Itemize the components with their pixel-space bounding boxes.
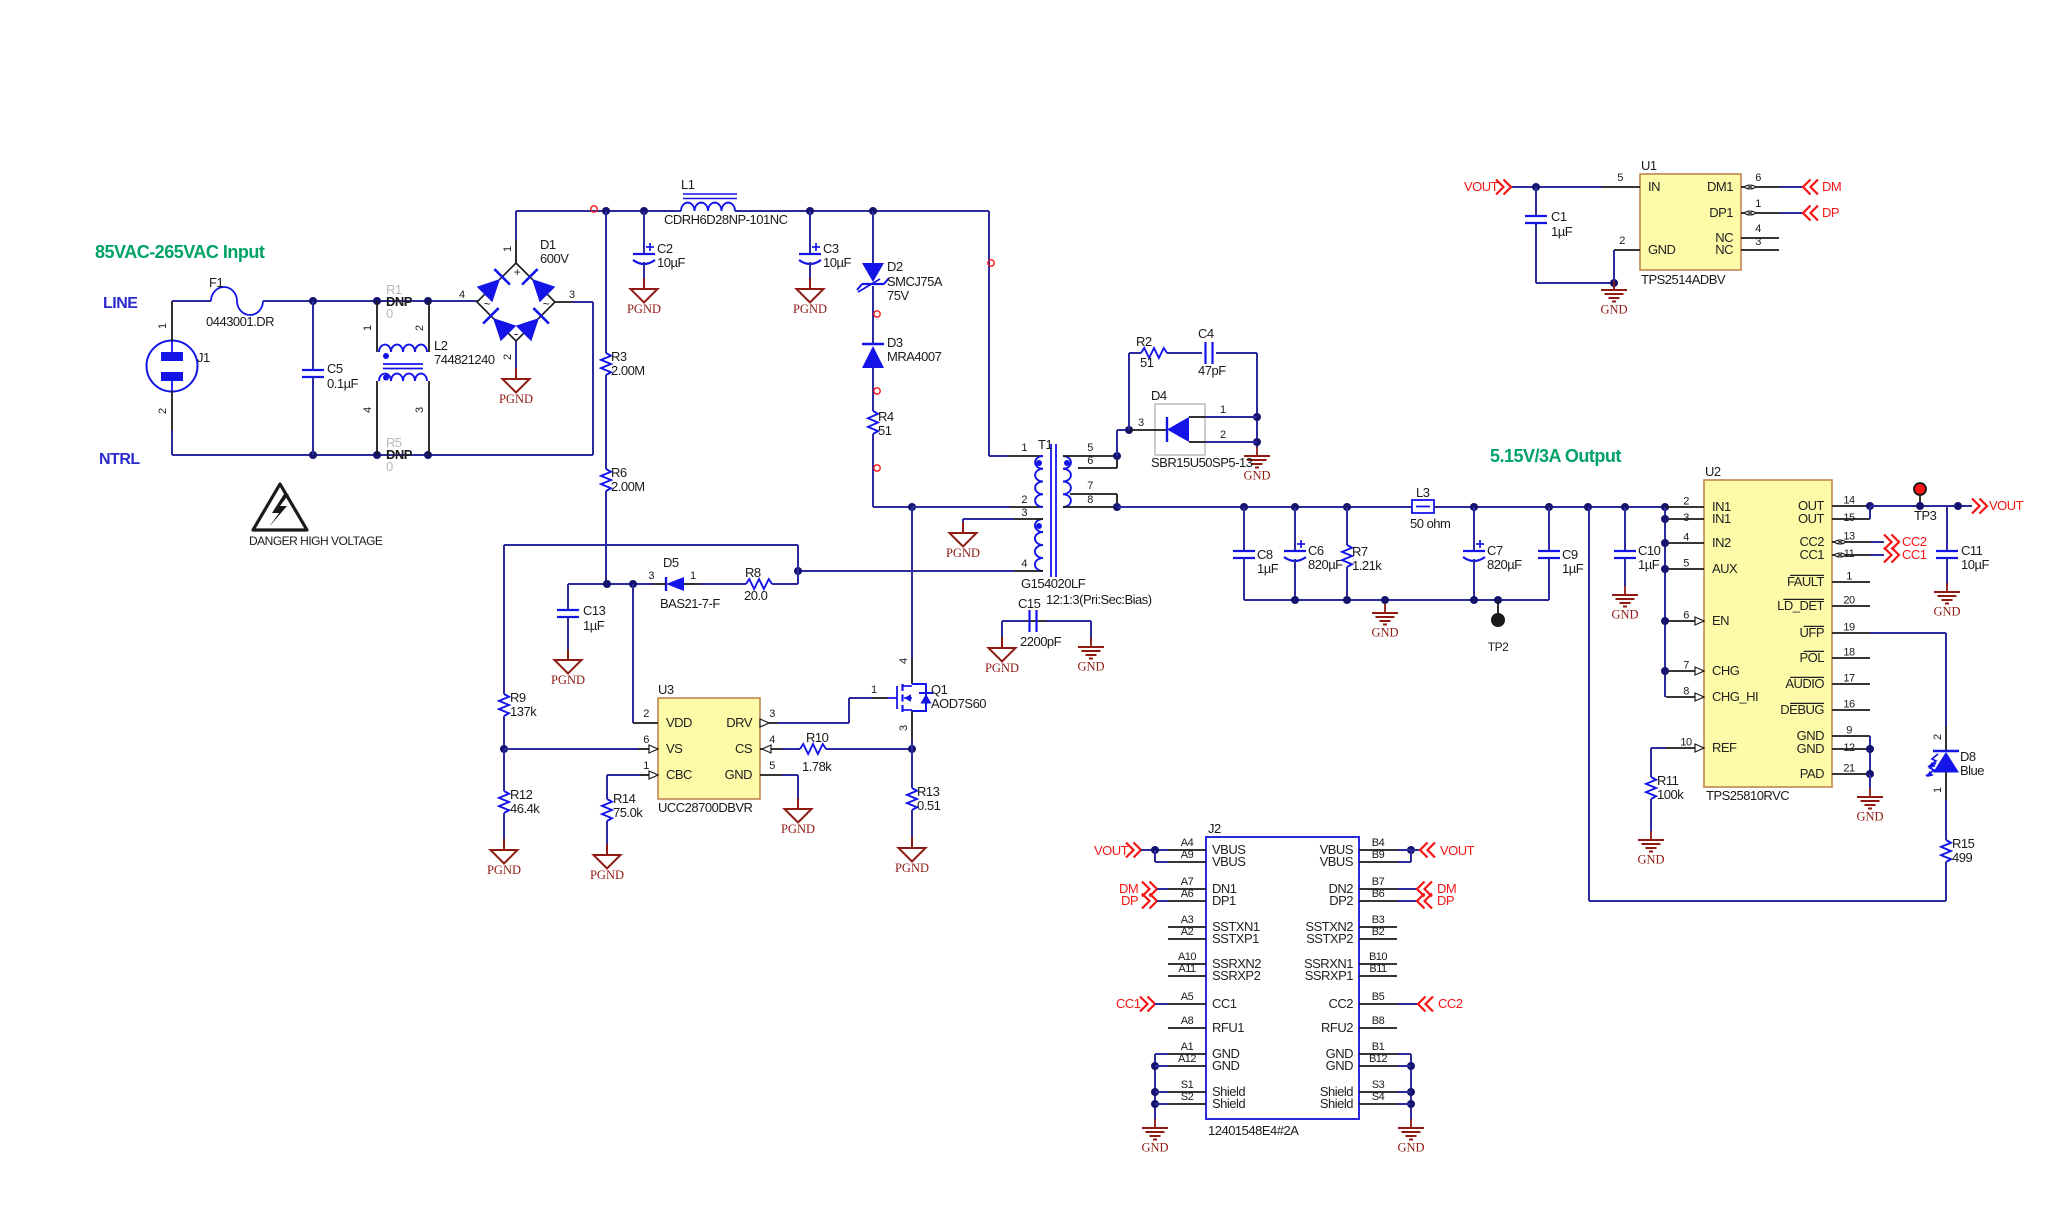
svg-text:GND: GND <box>1243 469 1270 483</box>
svg-text:SSRXP1: SSRXP1 <box>1305 968 1354 983</box>
svg-text:L2: L2 <box>434 338 448 353</box>
svg-text:J2: J2 <box>1208 821 1221 836</box>
svg-text:DP: DP <box>1437 893 1454 908</box>
svg-text:BAS21-7-F: BAS21-7-F <box>660 596 720 611</box>
svg-text:2.00M: 2.00M <box>611 363 645 378</box>
svg-text:UCC28700DBVR: UCC28700DBVR <box>658 800 753 815</box>
svg-text:1: 1 <box>690 570 696 582</box>
svg-text:744821240: 744821240 <box>434 352 495 367</box>
svg-text:Blue: Blue <box>1960 763 1984 778</box>
svg-text:C11: C11 <box>1961 543 1983 558</box>
svg-text:PGND: PGND <box>985 661 1019 675</box>
svg-text:0.51: 0.51 <box>917 798 941 813</box>
svg-text:FAULT: FAULT <box>1787 574 1825 589</box>
svg-text:B5: B5 <box>1372 991 1385 1003</box>
svg-text:5: 5 <box>1683 558 1689 570</box>
svg-text:A7: A7 <box>1181 876 1194 888</box>
svg-text:1: 1 <box>362 325 374 331</box>
svg-text:PGND: PGND <box>895 861 929 875</box>
svg-text:C4: C4 <box>1198 326 1214 341</box>
svg-text:GND: GND <box>1326 1058 1354 1073</box>
svg-text:C3: C3 <box>823 241 839 256</box>
svg-text:1.78k: 1.78k <box>802 759 832 774</box>
svg-text:10µF: 10µF <box>1961 557 1989 572</box>
svg-text:16: 16 <box>1843 699 1855 711</box>
svg-text:5: 5 <box>1087 442 1093 454</box>
svg-text:GND: GND <box>1141 1141 1168 1155</box>
svg-text:1: 1 <box>643 760 649 772</box>
svg-text:B9: B9 <box>1372 849 1385 861</box>
svg-text:B3: B3 <box>1372 914 1385 926</box>
svg-text:18: 18 <box>1843 647 1855 659</box>
svg-text:1µF: 1µF <box>583 618 605 633</box>
svg-text:7: 7 <box>1087 480 1093 492</box>
svg-text:12: 12 <box>1843 742 1855 754</box>
svg-text:0443001.DR: 0443001.DR <box>206 314 274 329</box>
svg-text:VBUS: VBUS <box>1212 854 1246 869</box>
svg-text:17: 17 <box>1843 673 1855 685</box>
svg-text:19: 19 <box>1843 622 1855 634</box>
svg-text:PAD: PAD <box>1800 766 1824 781</box>
svg-text:VOUT: VOUT <box>1989 498 2024 513</box>
svg-text:PGND: PGND <box>499 392 533 406</box>
svg-text:A10: A10 <box>1178 951 1196 963</box>
svg-text:R11: R11 <box>1657 773 1679 788</box>
svg-text:1: 1 <box>1755 198 1761 210</box>
svg-text:51: 51 <box>878 423 892 438</box>
svg-text:20: 20 <box>1843 595 1855 607</box>
svg-text:15: 15 <box>1843 512 1855 524</box>
svg-text:DRV: DRV <box>726 715 753 730</box>
svg-text:POL: POL <box>1799 650 1824 665</box>
svg-text:IN: IN <box>1648 179 1660 194</box>
svg-text:PGND: PGND <box>781 822 815 836</box>
svg-text:AUX: AUX <box>1712 561 1738 576</box>
svg-text:4: 4 <box>1021 558 1027 570</box>
svg-text:2: 2 <box>1619 235 1625 247</box>
svg-text:IN2: IN2 <box>1712 535 1731 550</box>
svg-text:51: 51 <box>1140 355 1154 370</box>
svg-text:14: 14 <box>1843 495 1855 507</box>
svg-text:3: 3 <box>769 708 775 720</box>
svg-text:R9: R9 <box>510 690 526 705</box>
svg-text:C15: C15 <box>1018 596 1041 611</box>
svg-text:B2: B2 <box>1372 926 1385 938</box>
svg-text:S4: S4 <box>1372 1091 1385 1103</box>
svg-text:PGND: PGND <box>551 673 585 687</box>
svg-text:PGND: PGND <box>487 863 521 877</box>
svg-text:IN1: IN1 <box>1712 511 1731 526</box>
svg-text:VBUS: VBUS <box>1320 854 1354 869</box>
svg-text:AOD7S60: AOD7S60 <box>931 696 986 711</box>
svg-text:1: 1 <box>1932 787 1944 793</box>
svg-text:C5: C5 <box>327 361 343 376</box>
svg-text:2: 2 <box>414 325 426 331</box>
svg-text:4: 4 <box>769 734 775 746</box>
svg-text:B1: B1 <box>1372 1041 1385 1053</box>
svg-text:C10: C10 <box>1638 543 1661 558</box>
svg-text:C8: C8 <box>1257 547 1273 562</box>
svg-text:8: 8 <box>1087 494 1093 506</box>
svg-text:B12: B12 <box>1369 1053 1387 1065</box>
svg-text:2200pF: 2200pF <box>1020 634 1062 649</box>
svg-text:5: 5 <box>1617 172 1623 184</box>
svg-text:R14: R14 <box>613 791 636 806</box>
svg-text:VDD: VDD <box>666 715 692 730</box>
svg-text:B10: B10 <box>1369 951 1387 963</box>
svg-text:U3: U3 <box>658 682 674 697</box>
svg-text:100k: 100k <box>1657 787 1684 802</box>
svg-text:CC1: CC1 <box>1799 547 1824 562</box>
svg-text:CC1: CC1 <box>1902 547 1927 562</box>
svg-text:1µF: 1µF <box>1562 561 1584 576</box>
svg-text:1: 1 <box>157 323 169 329</box>
svg-text:GND: GND <box>1212 1058 1240 1073</box>
svg-text:820µF: 820µF <box>1308 557 1343 572</box>
svg-text:B11: B11 <box>1369 963 1387 975</box>
svg-text:3: 3 <box>414 407 426 413</box>
svg-text:C1: C1 <box>1551 209 1567 224</box>
svg-text:CBC: CBC <box>666 767 692 782</box>
svg-text:SSRXP2: SSRXP2 <box>1212 968 1261 983</box>
svg-text:S3: S3 <box>1372 1079 1385 1091</box>
svg-text:R10: R10 <box>806 730 829 745</box>
svg-text:12401548E4#2A: 12401548E4#2A <box>1208 1123 1299 1138</box>
svg-text:6: 6 <box>1683 610 1689 622</box>
svg-text:DP: DP <box>1822 205 1839 220</box>
svg-text:CC2: CC2 <box>1438 996 1463 1011</box>
svg-text:C13: C13 <box>583 603 606 618</box>
svg-text:D5: D5 <box>663 555 679 570</box>
svg-text:4: 4 <box>1683 532 1689 544</box>
svg-text:REF: REF <box>1712 740 1737 755</box>
svg-text:DP2: DP2 <box>1329 893 1353 908</box>
svg-text:10µF: 10µF <box>823 255 851 270</box>
svg-text:J1: J1 <box>197 350 210 365</box>
svg-text:13: 13 <box>1843 531 1855 543</box>
svg-text:VS: VS <box>666 741 683 756</box>
svg-text:B6: B6 <box>1372 888 1385 900</box>
svg-text:A9: A9 <box>1181 849 1194 861</box>
svg-text:DANGER HIGH VOLTAGE: DANGER HIGH VOLTAGE <box>249 534 383 548</box>
svg-text:GND: GND <box>1648 242 1676 257</box>
svg-text:U2: U2 <box>1705 464 1721 479</box>
svg-text:2: 2 <box>157 408 169 414</box>
svg-text:0: 0 <box>386 459 393 474</box>
svg-text:R13: R13 <box>917 784 940 799</box>
svg-text:3: 3 <box>898 725 910 731</box>
svg-text:0: 0 <box>386 306 393 321</box>
svg-text:RFU1: RFU1 <box>1212 1020 1244 1035</box>
svg-text:Shield: Shield <box>1320 1096 1353 1111</box>
svg-text:VOUT: VOUT <box>1094 843 1129 858</box>
svg-text:1: 1 <box>1846 571 1852 583</box>
svg-text:SMCJ75A: SMCJ75A <box>887 274 943 289</box>
svg-text:DM1: DM1 <box>1707 179 1733 194</box>
svg-text:499: 499 <box>1952 850 1972 865</box>
svg-text:10: 10 <box>1680 737 1692 749</box>
svg-text:+: + <box>514 265 521 279</box>
svg-text:AUDIO: AUDIO <box>1785 676 1824 691</box>
svg-text:TPS2514ADBV: TPS2514ADBV <box>1641 272 1726 287</box>
svg-text:1µF: 1µF <box>1638 557 1660 572</box>
svg-text:2: 2 <box>1683 496 1689 508</box>
svg-text:VOUT: VOUT <box>1464 179 1499 194</box>
svg-text:7: 7 <box>1683 660 1689 672</box>
svg-text:A1: A1 <box>1181 1041 1194 1053</box>
svg-text:PGND: PGND <box>793 302 827 316</box>
svg-text:Shield: Shield <box>1212 1096 1245 1111</box>
svg-text:2.00M: 2.00M <box>611 479 645 494</box>
svg-text:MRA4007: MRA4007 <box>887 349 942 364</box>
svg-text:3: 3 <box>1138 417 1144 429</box>
svg-text:1.21k: 1.21k <box>1352 558 1382 573</box>
svg-text:20.0: 20.0 <box>744 588 768 603</box>
svg-text:1µF: 1µF <box>1257 561 1279 576</box>
svg-text:LINE: LINE <box>103 295 138 312</box>
svg-text:A2: A2 <box>1181 926 1194 938</box>
svg-text:GND: GND <box>1600 303 1627 317</box>
svg-text:3: 3 <box>1683 512 1689 524</box>
svg-text:CHG: CHG <box>1712 663 1740 678</box>
svg-text:DP1: DP1 <box>1212 893 1236 908</box>
svg-text:G154020LF: G154020LF <box>1021 576 1086 591</box>
svg-text:GND: GND <box>1371 626 1398 640</box>
svg-text:DM: DM <box>1822 179 1841 194</box>
svg-text:21: 21 <box>1843 763 1855 775</box>
svg-text:5: 5 <box>769 760 775 772</box>
svg-text:EN: EN <box>1712 613 1729 628</box>
svg-text:2: 2 <box>1932 734 1944 740</box>
svg-text:46.4k: 46.4k <box>510 801 540 816</box>
svg-text:C6: C6 <box>1308 543 1324 558</box>
svg-text:D1: D1 <box>540 237 556 252</box>
svg-text:B8: B8 <box>1372 1015 1385 1027</box>
svg-text:LD_DET: LD_DET <box>1777 598 1824 613</box>
svg-text:CC2: CC2 <box>1328 996 1353 1011</box>
svg-text:A3: A3 <box>1181 914 1194 926</box>
svg-text:3: 3 <box>1021 507 1027 519</box>
svg-text:GND: GND <box>1856 810 1883 824</box>
svg-text:PGND: PGND <box>946 546 980 560</box>
svg-text:137k: 137k <box>510 704 537 719</box>
svg-text:GND: GND <box>1397 1141 1424 1155</box>
svg-text:CS: CS <box>735 741 753 756</box>
svg-text:PGND: PGND <box>590 868 624 882</box>
svg-text:1: 1 <box>1021 442 1027 454</box>
svg-text:A4: A4 <box>1181 837 1194 849</box>
svg-text:5.15V/3A Output: 5.15V/3A Output <box>1490 446 1621 466</box>
svg-text:D8: D8 <box>1960 749 1976 764</box>
svg-text:A5: A5 <box>1181 991 1194 1003</box>
svg-text:~: ~ <box>543 297 550 311</box>
svg-text:9: 9 <box>1846 725 1852 737</box>
svg-text:S1: S1 <box>1181 1079 1194 1091</box>
svg-text:VOUT: VOUT <box>1440 843 1475 858</box>
svg-text:6: 6 <box>643 734 649 746</box>
svg-text:R12: R12 <box>510 787 533 802</box>
svg-text:SBR15U50SP5-13: SBR15U50SP5-13 <box>1151 455 1253 470</box>
svg-text:B4: B4 <box>1372 837 1385 849</box>
svg-text:3: 3 <box>569 289 575 301</box>
svg-text:10µF: 10µF <box>657 255 685 270</box>
svg-text:85VAC-265VAC Input: 85VAC-265VAC Input <box>95 242 265 262</box>
svg-text:-: - <box>514 326 518 341</box>
svg-text:4: 4 <box>459 289 465 301</box>
svg-text:600V: 600V <box>540 251 569 266</box>
svg-text:R15: R15 <box>1952 836 1975 851</box>
svg-text:3: 3 <box>648 570 654 582</box>
svg-text:TPS25810RVC: TPS25810RVC <box>1706 788 1789 803</box>
svg-text:75.0k: 75.0k <box>613 805 643 820</box>
svg-text:TP3: TP3 <box>1914 508 1937 523</box>
svg-text:CC1: CC1 <box>1212 996 1237 1011</box>
svg-text:4: 4 <box>898 658 910 664</box>
svg-text:50 ohm: 50 ohm <box>1410 516 1450 531</box>
svg-text:A6: A6 <box>1181 888 1194 900</box>
svg-text:47pF: 47pF <box>1198 363 1226 378</box>
svg-text:A11: A11 <box>1178 963 1196 975</box>
svg-text:L3: L3 <box>1416 485 1430 500</box>
svg-text:R2: R2 <box>1136 334 1152 349</box>
svg-text:R4: R4 <box>878 409 894 424</box>
svg-text:D3: D3 <box>887 335 903 350</box>
svg-text:6: 6 <box>1755 172 1761 184</box>
svg-text:GND: GND <box>1637 853 1664 867</box>
svg-text:1: 1 <box>871 684 877 696</box>
svg-text:75V: 75V <box>887 288 909 303</box>
svg-text:R6: R6 <box>611 465 627 480</box>
svg-text:PGND: PGND <box>627 302 661 316</box>
svg-text:12:1:3(Pri:Sec:Bias): 12:1:3(Pri:Sec:Bias) <box>1046 592 1152 607</box>
svg-text:SSTXP1: SSTXP1 <box>1212 931 1259 946</box>
svg-text:S2: S2 <box>1181 1091 1194 1103</box>
svg-text:U1: U1 <box>1641 158 1657 173</box>
svg-text:820µF: 820µF <box>1487 557 1522 572</box>
svg-text:2: 2 <box>643 708 649 720</box>
svg-text:1: 1 <box>1220 404 1226 416</box>
svg-text:GND: GND <box>1077 660 1104 674</box>
svg-text:GND: GND <box>725 767 753 782</box>
svg-text:DEBUG: DEBUG <box>1780 702 1824 717</box>
svg-text:D2: D2 <box>887 259 903 274</box>
svg-text:4: 4 <box>362 407 374 413</box>
svg-text:SSTXP2: SSTXP2 <box>1306 931 1353 946</box>
svg-text:L1: L1 <box>681 177 695 192</box>
svg-text:R8: R8 <box>745 565 761 580</box>
svg-text:GND: GND <box>1933 605 1960 619</box>
svg-text:4: 4 <box>1755 223 1761 235</box>
svg-text:D4: D4 <box>1151 388 1167 403</box>
svg-text:NC: NC <box>1715 242 1733 257</box>
svg-text:2: 2 <box>502 354 514 360</box>
svg-text:T1: T1 <box>1038 437 1052 452</box>
svg-text:A12: A12 <box>1178 1053 1196 1065</box>
svg-text:Q1: Q1 <box>931 682 948 697</box>
svg-text:CC1: CC1 <box>1116 996 1141 1011</box>
svg-text:1µF: 1µF <box>1551 224 1573 239</box>
svg-text:C9: C9 <box>1562 547 1578 562</box>
svg-text:R7: R7 <box>1352 544 1368 559</box>
svg-text:0.1µF: 0.1µF <box>327 376 359 391</box>
svg-text:TP2: TP2 <box>1488 640 1509 654</box>
svg-text:A8: A8 <box>1181 1015 1194 1027</box>
svg-text:R3: R3 <box>611 349 627 364</box>
svg-text:UFP: UFP <box>1800 625 1825 640</box>
svg-text:1: 1 <box>502 246 514 252</box>
svg-text:C7: C7 <box>1487 543 1503 558</box>
svg-text:OUT: OUT <box>1798 511 1825 526</box>
svg-text:CDRH6D28NP-101NC: CDRH6D28NP-101NC <box>664 212 788 227</box>
svg-text:F1: F1 <box>209 275 223 290</box>
svg-text:6: 6 <box>1087 455 1093 467</box>
svg-text:~: ~ <box>484 297 491 311</box>
svg-text:2: 2 <box>1021 494 1027 506</box>
svg-text:C2: C2 <box>657 241 673 256</box>
svg-text:NTRL: NTRL <box>99 451 140 468</box>
svg-text:RFU2: RFU2 <box>1321 1020 1353 1035</box>
svg-text:B7: B7 <box>1372 876 1385 888</box>
svg-text:DP: DP <box>1121 893 1138 908</box>
svg-text:2: 2 <box>1220 429 1226 441</box>
svg-text:GND: GND <box>1611 608 1638 622</box>
svg-text:DP1: DP1 <box>1709 205 1733 220</box>
svg-text:8: 8 <box>1683 686 1689 698</box>
svg-text:CHG_HI: CHG_HI <box>1712 689 1758 704</box>
svg-text:GND: GND <box>1797 741 1825 756</box>
